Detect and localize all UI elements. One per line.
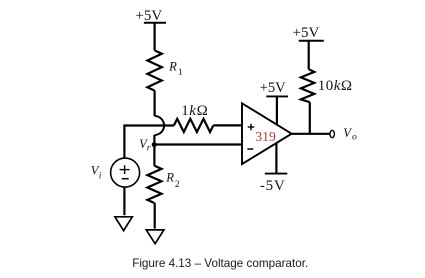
- source Vi (circle with + and -): [111, 158, 140, 187]
- svg-text:+5V: +5V: [135, 8, 162, 24]
- label R1: [168, 60, 183, 78]
- wire from +5V bar to 10k resistor: [308, 41, 310, 70]
- svg-text:10kΩ: 10kΩ: [318, 78, 353, 94]
- power +5V supply (top of 10k pull-up): [293, 25, 324, 41]
- svg-text:V: V: [343, 126, 352, 140]
- label Vr: [139, 137, 151, 153]
- label 319 (device number): [255, 129, 276, 144]
- wire from op-amp bottom edge to -5V bar: [275, 143, 277, 174]
- svg-text:i: i: [99, 171, 102, 181]
- label R2: [165, 171, 180, 190]
- wire from node Vr to op-amp - input: [154, 143, 242, 145]
- resistor R1: [147, 50, 161, 90]
- wire from 10k resistor bottom to output junction: [309, 102, 311, 135]
- wire from Vi source top, up and right to 1k resistor: [124, 126, 173, 158]
- power -5V supply (op-amp negative rail): [260, 174, 287, 194]
- wire from +5V bar to op-amp top edge: [276, 96, 278, 125]
- resistor R2: [147, 166, 161, 203]
- op-amp U1 (comparator triangle): [242, 103, 292, 164]
- svg-text:2: 2: [175, 180, 180, 190]
- label Vi: [91, 163, 102, 181]
- svg-text:o: o: [352, 133, 357, 143]
- svg-text:Figure 4.13 – Voltage comparat: Figure 4.13 – Voltage comparator.: [132, 257, 308, 270]
- wire hop (crossover arc, no connection) over Vi wire: [155, 116, 165, 135]
- label 1kOhm: [181, 103, 208, 119]
- wire from R2 bottom to ground: [154, 203, 156, 229]
- ground (below Vi): [115, 217, 132, 231]
- resistor 10k (pull-up): [301, 69, 314, 102]
- svg-text:r: r: [147, 143, 151, 153]
- wire from Vi source bottom to ground: [123, 188, 125, 216]
- terminal Vo (open circle): [330, 130, 334, 137]
- wire from 1k resistor to op-amp + input: [213, 124, 242, 126]
- svg-text:1: 1: [178, 68, 183, 78]
- caption: Figure 4.13 - Voltage comparator.: [132, 257, 308, 270]
- svg-text:R: R: [168, 60, 177, 74]
- power +5V supply (top of R1): [135, 8, 166, 24]
- ground (below R2): [146, 230, 164, 244]
- resistor 1k (horizontal): [174, 119, 213, 132]
- svg-text:1kΩ: 1kΩ: [181, 103, 208, 119]
- svg-text:+5V: +5V: [260, 80, 286, 96]
- svg-text:319: 319: [255, 129, 276, 144]
- svg-text:+5V: +5V: [293, 25, 320, 41]
- node Vr (junction dot): [152, 142, 157, 147]
- power +5V supply (op-amp positive rail): [260, 80, 288, 96]
- wire from op-amp output to terminal Vo: [291, 133, 329, 135]
- wire from hop arc to node Vr: [153, 135, 155, 146]
- wire from +5V bar to resistor R1: [154, 23, 156, 51]
- svg-text:-5V: -5V: [260, 178, 286, 194]
- svg-text:R: R: [165, 171, 174, 185]
- label Vo: [343, 126, 357, 143]
- wire from R1 bottom to hop arc: [154, 91, 156, 116]
- wire from node Vr down to R2: [153, 145, 155, 166]
- label 10kOhm: [318, 78, 353, 94]
